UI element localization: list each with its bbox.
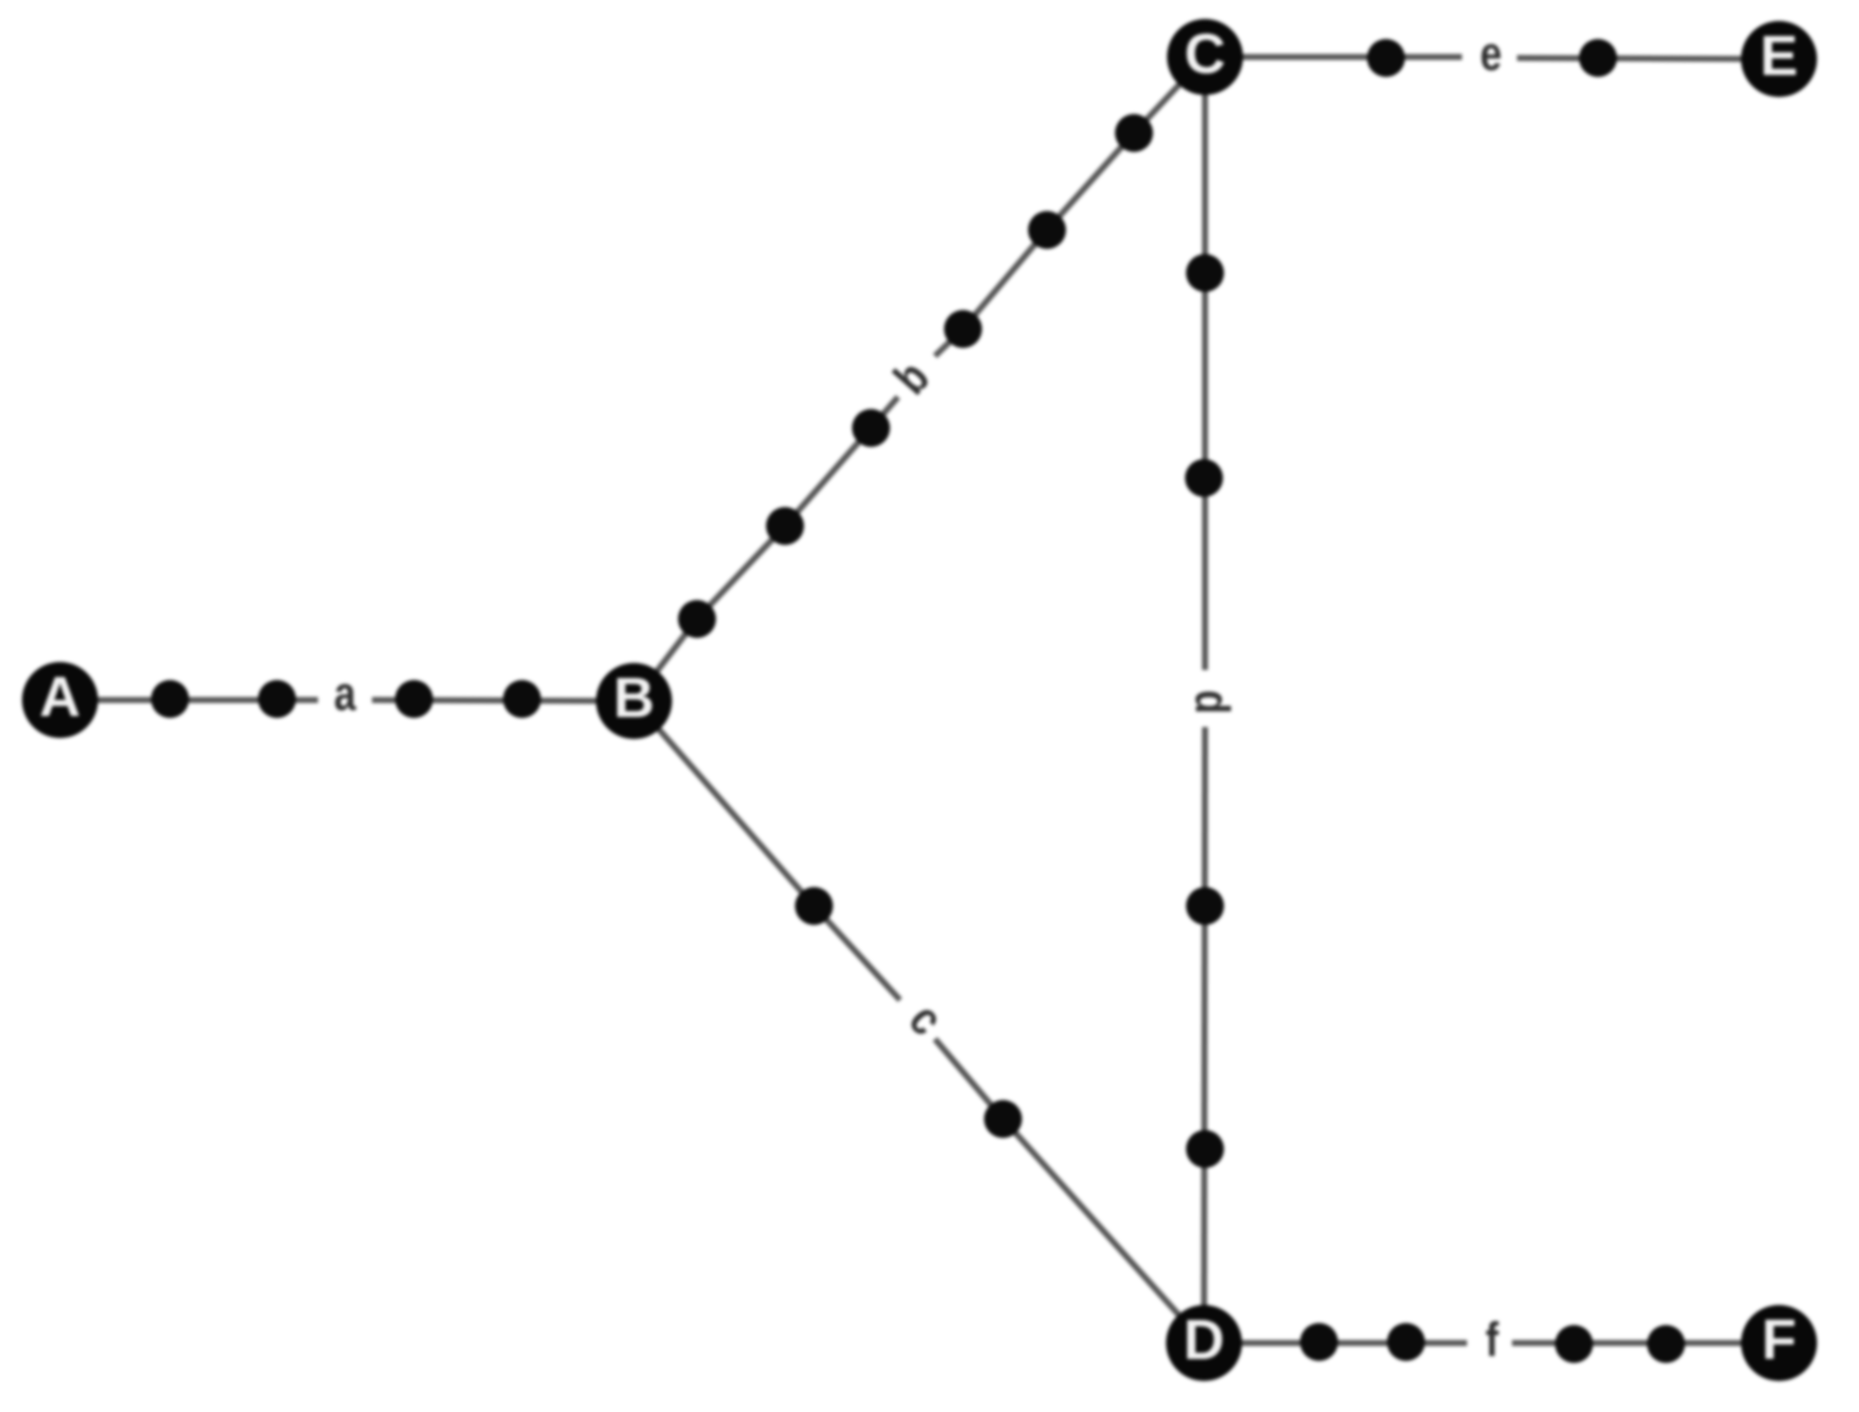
svg-text:a: a	[334, 667, 356, 721]
svg-text:b: b	[884, 351, 940, 405]
svg-text:F: F	[1762, 1308, 1797, 1372]
svg-text:d: d	[1185, 690, 1239, 714]
svg-text:f: f	[1485, 1313, 1498, 1367]
svg-text:c: c	[899, 993, 954, 1045]
svg-text:e: e	[1480, 27, 1502, 81]
svg-text:E: E	[1760, 24, 1798, 88]
svg-text:B: B	[613, 666, 654, 730]
svg-text:C: C	[1184, 22, 1225, 86]
svg-text:D: D	[1183, 1308, 1224, 1372]
svg-text:A: A	[39, 665, 80, 729]
